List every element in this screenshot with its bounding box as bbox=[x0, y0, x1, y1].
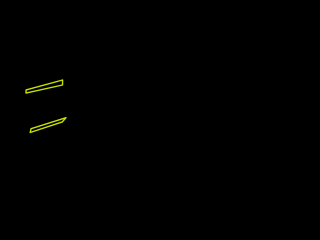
upper bar bbox=[26, 80, 63, 93]
lower bar bbox=[30, 118, 66, 133]
